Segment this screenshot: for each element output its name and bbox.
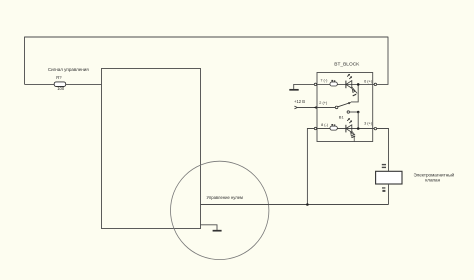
- svg-text:2 (+): 2 (+): [319, 101, 328, 105]
- svg-text:100: 100: [57, 86, 65, 91]
- wire: input to resistor: [25, 83, 55, 85]
- pin 6 (+): [364, 79, 377, 85]
- switch B1 label: [339, 115, 345, 120]
- annotation circle: Управление нулем: [171, 161, 269, 259]
- wire: right rail to pin 6: [377, 37, 388, 85]
- wire: top row inside block: [317, 83, 374, 85]
- switch B1 pivot: [335, 106, 338, 109]
- svg-text:Сигнал управления: Сигнал управления: [48, 67, 89, 72]
- svg-text:3 (+): 3 (+): [364, 122, 373, 126]
- thyristor VS1 (top): [346, 74, 352, 88]
- wire: pin 2 inside: [317, 107, 336, 109]
- BT_BLOCK box: [317, 62, 373, 142]
- svg-text:Управление нулем: Управление нулем: [207, 195, 244, 200]
- junction (top row): [357, 83, 360, 86]
- wire: resistor to control box: [66, 83, 102, 85]
- svg-text:+12 В: +12 В: [294, 99, 305, 104]
- wire: bottom rail: [201, 204, 389, 206]
- wire: left rail: [24, 37, 26, 85]
- junction (bottom row): [357, 127, 360, 130]
- wire: top rail: [25, 36, 389, 38]
- wire: solenoid to bottom rail: [388, 184, 390, 205]
- pin 2 (+): [314, 101, 328, 109]
- resistor (bottom, in block): [330, 124, 337, 130]
- svg-text:7 (-): 7 (-): [320, 79, 328, 83]
- wire: pin 3 to solenoid: [377, 129, 389, 172]
- gate diode (top): [352, 87, 357, 96]
- svg-text:BT_BLOCK: BT_BLOCK: [334, 62, 360, 68]
- switch B1 top contact hook: [351, 84, 358, 102]
- svg-text:клапан: клапан: [425, 177, 440, 182]
- ground (control box): [201, 225, 222, 231]
- svg-text:В1: В1: [339, 115, 345, 120]
- node: Сигнал управления label: [48, 67, 89, 72]
- ground (pin 7): [289, 89, 298, 91]
- wire: pin 8 branch: [307, 129, 314, 205]
- thyristor VS2 (bottom): [346, 118, 352, 132]
- port +12 В: [294, 99, 305, 109]
- switch B1 bottom contact: [347, 111, 359, 129]
- resistor (top, in block): [330, 80, 337, 86]
- solenoid valve Y1: [376, 164, 455, 192]
- svg-text:8 (-): 8 (-): [321, 123, 329, 127]
- junction (bottom rail): [306, 203, 309, 206]
- switch B1 blade: [338, 102, 352, 107]
- wire: bottom row inside block: [317, 128, 374, 130]
- wire: pin 7 to ground: [294, 84, 315, 89]
- resistor R1 (R? 100): [54, 75, 65, 91]
- pin 7 (-): [314, 79, 328, 86]
- pin 8 (-): [314, 123, 328, 130]
- wire: +12V to pin 2: [297, 107, 335, 109]
- pin 3 (+): [364, 122, 377, 130]
- svg-text:R?: R?: [56, 75, 62, 80]
- gate diode (bottom): [351, 131, 355, 141]
- control unit box: [102, 69, 201, 229]
- svg-text:6 (+): 6 (+): [364, 79, 373, 83]
